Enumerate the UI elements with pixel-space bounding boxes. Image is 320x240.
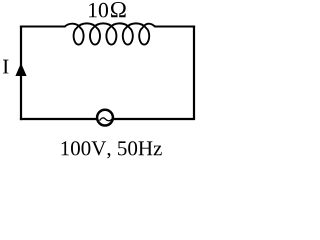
wire right side <box>193 26 195 120</box>
wire left side <box>20 27 22 121</box>
label I (current) <box>3 60 9 74</box>
wire bottom-left segment <box>20 118 97 120</box>
AC source V1: sine tilde symbol <box>100 118 113 121</box>
current arrow on left wire <box>15 63 26 76</box>
wire bottom-right segment <box>113 118 195 120</box>
AC source V1: circle <box>97 110 113 126</box>
label 10 ohm (inductor value) <box>89 2 126 17</box>
label 100V, 50Hz (source value) <box>62 141 162 158</box>
wire top-left segment, inductor L1 (5-loop coil), wire top-right segment <box>20 23 195 44</box>
